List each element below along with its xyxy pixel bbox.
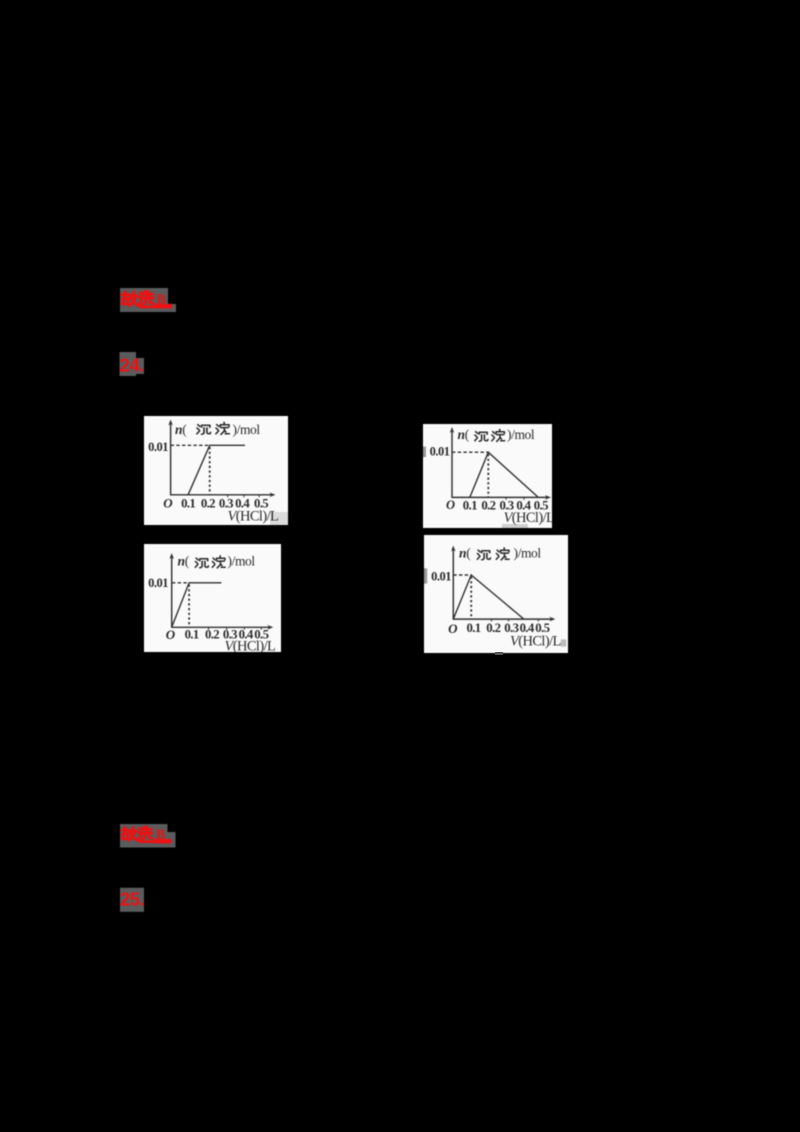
curve (171, 582, 221, 627)
x-axis (170, 494, 272, 496)
curve (470, 452, 539, 497)
svg-text:0.2: 0.2 (201, 497, 215, 511)
curve (188, 445, 245, 495)
svg-text:)/mol: )/mol (227, 553, 255, 568)
ticks (492, 619, 539, 621)
svg-text:0.01: 0.01 (431, 570, 451, 584)
x-axis (453, 618, 552, 620)
svg-text:0.2: 0.2 (481, 498, 495, 512)
left gray bar (423, 447, 426, 458)
y-axis (451, 431, 453, 498)
y-axis arrow (451, 546, 456, 552)
bottom gray patch (502, 524, 528, 528)
chart B panel (top-right) (423, 424, 552, 528)
x-axis arrow (545, 495, 551, 500)
y-axis arrow (450, 427, 455, 433)
svg-text:)/mol: )/mol (514, 546, 542, 561)
svg-text:O: O (446, 498, 455, 512)
ticks (208, 627, 261, 629)
svg-text:25.: 25. (120, 889, 145, 910)
chart C panel (bottom-left) (144, 544, 281, 652)
shared CJK glyph defs (0, 0, 1, 1)
dashed level line (452, 451, 488, 453)
svg-text:24.: 24. (120, 355, 145, 376)
chart A panel (top-left) (144, 416, 288, 525)
svg-text:0.1: 0.1 (463, 498, 477, 512)
svg-text:0.01: 0.01 (148, 576, 168, 590)
x tick labels (463, 498, 548, 512)
svg-text:)/mol: )/mol (507, 427, 535, 442)
left gray bar (424, 568, 427, 583)
svg-text:0.1: 0.1 (181, 497, 195, 511)
svg-text:V(HCl)/L: V(HCl)/L (504, 510, 553, 526)
svg-text:)/mol: )/mol (233, 422, 261, 437)
x tick labels (184, 627, 268, 641)
gray square after L (561, 639, 566, 646)
dashed level line (171, 444, 210, 446)
dashed drop line (209, 447, 211, 495)
svg-text:0.1: 0.1 (184, 627, 198, 641)
x tick labels (181, 497, 268, 511)
svg-text:O: O (448, 621, 458, 636)
svg-text:O: O (165, 627, 175, 642)
svg-text:0.2: 0.2 (486, 621, 500, 635)
svg-text:O: O (163, 496, 173, 511)
x-axis (171, 626, 270, 628)
y-axis (170, 557, 172, 628)
svg-text:V(HCl)/L: V(HCl)/L (228, 508, 279, 524)
svg-text:V(HCl)/L: V(HCl)/L (224, 638, 275, 652)
y-axis (452, 549, 454, 620)
svg-text:0.2: 0.2 (204, 627, 218, 641)
x-axis arrow (549, 617, 555, 622)
svg-text:0.1: 0.1 (466, 621, 480, 635)
curve (453, 575, 524, 619)
x-axis arrow (270, 493, 276, 498)
chart D panel (bottom-right) (424, 535, 568, 653)
svg-text:0.01: 0.01 (148, 440, 168, 454)
question number 24. (117, 350, 151, 380)
svg-text:0.01: 0.01 (430, 445, 450, 459)
ticks (228, 495, 260, 497)
y-axis (170, 424, 172, 496)
x tick labels (466, 621, 549, 635)
dashed drop line (188, 584, 190, 627)
ticks (506, 497, 524, 499)
dashed level line (453, 574, 471, 576)
dashed level line (172, 581, 189, 583)
svg-text:V(HCl)/L: V(HCl)/L (510, 633, 561, 649)
dashed drop line (487, 454, 489, 497)
smudge below chart D (495, 652, 503, 655)
x-axis arrow (267, 625, 273, 630)
gray corner patch (270, 512, 288, 525)
y-axis arrow (168, 420, 173, 426)
svg-text:n(: n( (458, 427, 470, 442)
svg-text:n(: n( (459, 546, 471, 561)
y-axis arrow (169, 553, 174, 559)
question number 25. (117, 885, 151, 915)
svg-text:n(: n( (177, 553, 189, 568)
svg-text:n(: n( (175, 422, 187, 437)
answer box 1 (red 故选B.) (118, 286, 180, 316)
dashed drop line (470, 577, 472, 620)
x-axis (452, 496, 548, 498)
answer box 2 (red 故选B.) (118, 822, 180, 852)
